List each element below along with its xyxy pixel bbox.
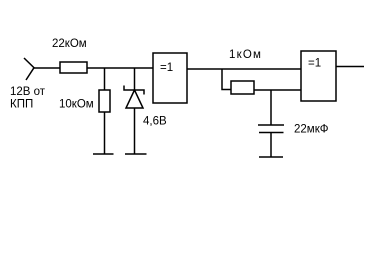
svg-text:22мкФ: 22мкФ — [294, 124, 329, 136]
capacitor C1 bottom plate — [259, 132, 284, 134]
wire junction to R2 — [104, 68, 106, 90]
input connector X1 (12V from KPP) — [24, 58, 34, 80]
wire U1 output to U2 input — [187, 68, 301, 70]
resistor R2 10kOm — [99, 90, 110, 112]
svg-text:4,6В: 4,6В — [143, 116, 167, 128]
wire junction to capacitor C1 — [270, 90, 272, 125]
capacitor C1 top plate — [258, 124, 284, 126]
ground under VD1 — [125, 153, 147, 155]
svg-text:12В от: 12В от — [10, 86, 46, 98]
wire junction down to R3 — [222, 69, 231, 90]
resistor R1 22kOm — [60, 62, 87, 73]
ground under R2 — [93, 153, 114, 155]
gate U2 box — [301, 51, 336, 101]
svg-text:1кОм: 1кОм — [229, 49, 262, 61]
zener diode VD1 triangle — [126, 90, 143, 108]
svg-text:=1: =1 — [160, 62, 173, 74]
ground under C1 — [259, 156, 283, 158]
wire C1 to ground — [270, 133, 272, 158]
zener diode VD1 4.6V cathode bar — [124, 86, 144, 95]
wire R1 to gate U1 — [87, 67, 153, 69]
wire junction to zener VD1 — [134, 68, 136, 90]
gate U1 box — [153, 53, 187, 103]
svg-text:10кОм: 10кОм — [59, 99, 94, 111]
wire input to R1 — [33, 67, 60, 69]
resistor R3 1kOm — [231, 81, 254, 94]
wire R2 to ground — [104, 112, 106, 154]
wire VD1 to ground — [134, 108, 136, 154]
wire R3 to U2 lower input — [254, 89, 301, 91]
wire U2 output — [336, 66, 364, 68]
svg-text:=1: =1 — [308, 58, 321, 70]
svg-text:КПП: КПП — [10, 99, 33, 111]
svg-text:22кОм: 22кОм — [52, 38, 87, 50]
